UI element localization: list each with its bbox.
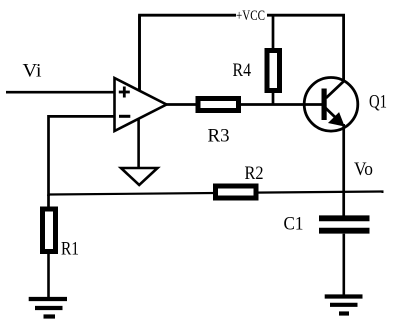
resistor R2 bbox=[216, 186, 257, 198]
wire: +VCC rail left segment bbox=[140, 15, 237, 91]
wire: op-amp output to R3 bbox=[167, 103, 197, 106]
resistor R1 bbox=[43, 209, 56, 252]
wire: R3 to Q1 base bbox=[241, 103, 322, 106]
svg-text:+VCC: +VCC bbox=[236, 8, 265, 24]
wire: R4 bottom to base node bbox=[272, 93, 275, 105]
wire: op-amp inverting input from feedback node bbox=[49, 116, 115, 196]
wire: C1 bottom to ground bbox=[342, 234, 345, 295]
ground (earth symbol bottom-left) bbox=[29, 299, 67, 317]
ground (earth symbol bottom-right) bbox=[325, 297, 363, 314]
wire: R4 top to +VCC rail bbox=[272, 15, 275, 48]
wire: op-amp negative supply pin down bbox=[137, 119, 140, 169]
wire: feedback line (Vo to R2 to inverting node) bbox=[49, 192, 384, 195]
svg-text:R3: R3 bbox=[208, 126, 230, 147]
wire: Vi input to op-amp + bbox=[6, 91, 115, 94]
transistor Q1 bbox=[304, 78, 358, 132]
svg-text:Vi: Vi bbox=[23, 61, 42, 82]
svg-text:Vo: Vo bbox=[354, 159, 373, 180]
svg-text:R1: R1 bbox=[61, 239, 79, 260]
ground (signal ground triangle under op-amp) bbox=[121, 168, 158, 185]
resistor R3 bbox=[198, 99, 239, 111]
wire: op-amp power pin to +VCC rail bbox=[138, 15, 141, 91]
wire: Q1 emitter down to Vo node and C1 bbox=[342, 124, 345, 216]
svg-text:C1: C1 bbox=[284, 214, 304, 235]
wire: feedback node down to R1 bbox=[47, 195, 50, 208]
wire: +VCC rail right segment bbox=[267, 15, 344, 81]
capacitor C1 bbox=[319, 218, 370, 230]
svg-text:R4: R4 bbox=[233, 60, 252, 81]
op-amp U1 bbox=[115, 78, 167, 131]
wire: R1 bottom to ground bbox=[47, 254, 50, 297]
svg-text:Q1: Q1 bbox=[369, 92, 387, 113]
svg-text:R2: R2 bbox=[245, 163, 264, 184]
resistor R4 bbox=[267, 51, 280, 91]
